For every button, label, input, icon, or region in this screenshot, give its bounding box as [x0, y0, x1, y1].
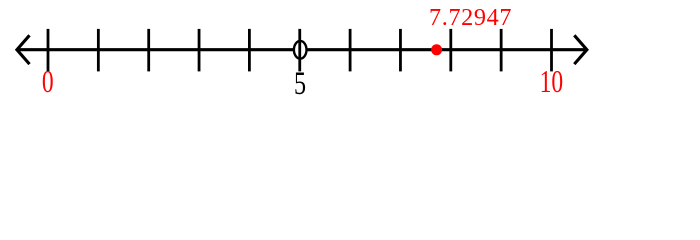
svg-text:0: 0 [42, 65, 54, 100]
svg-text:7.72947: 7.72947 [429, 4, 512, 31]
svg-text:10: 10 [540, 65, 564, 100]
svg-text:5: 5 [294, 65, 306, 100]
